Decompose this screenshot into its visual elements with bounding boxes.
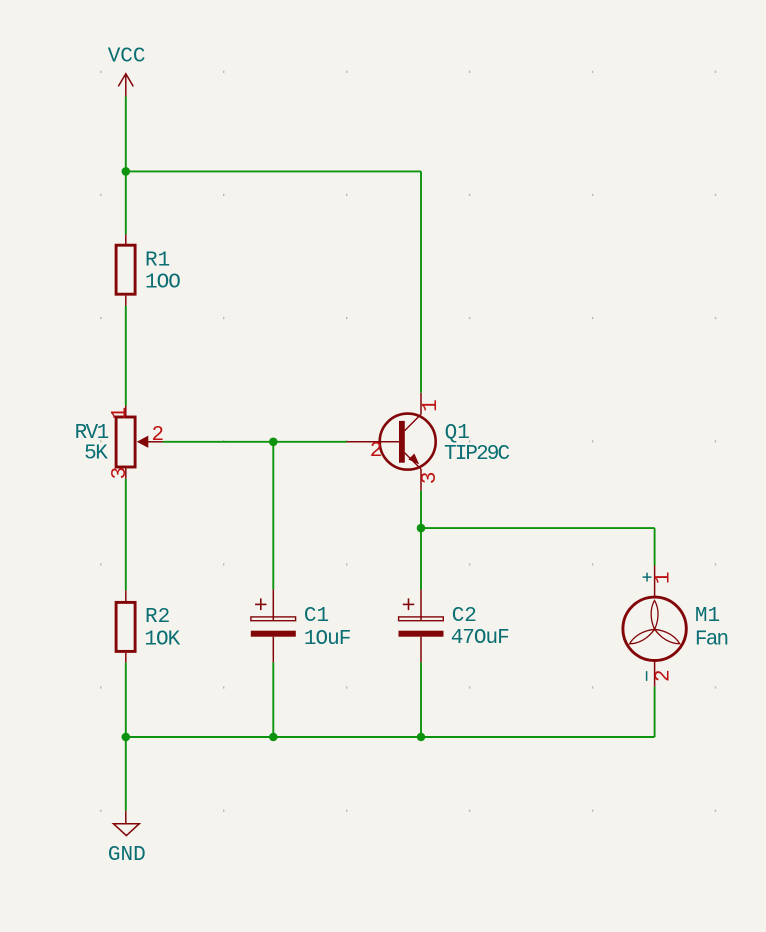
wire Q1 emitter down to mid junction	[420, 491, 422, 528]
svg-text:47OuF: 47OuF	[451, 627, 509, 650]
capacitor C1	[251, 589, 296, 662]
resistor R2	[116, 590, 135, 663]
svg-text:R1: R1	[145, 250, 170, 273]
junction at VCC rail and top wire	[122, 167, 131, 176]
svg-text:3: 3	[419, 471, 442, 484]
svg-text:C2: C2	[452, 605, 477, 628]
svg-text:R2: R2	[145, 606, 170, 629]
resistor R1	[116, 234, 135, 306]
wire R2 pin 2 to bottom wire	[125, 663, 127, 737]
junction at bottom left GND node	[122, 733, 131, 742]
svg-text:1: 1	[420, 399, 443, 412]
wire fan column down to M1 pin 1	[654, 528, 656, 565]
M1 plus mark	[643, 573, 652, 582]
svg-text:5K: 5K	[84, 442, 108, 465]
svg-text:TIP29C: TIP29C	[444, 443, 510, 466]
wire C1 column down from wiper wire	[272, 442, 274, 590]
svg-text:GND: GND	[108, 844, 146, 867]
power symbol VCC	[118, 74, 133, 97]
wire emitter junction down to C2 pin 1	[420, 528, 422, 589]
junction at C1 bottom	[269, 733, 278, 742]
svg-text:2: 2	[653, 669, 676, 682]
wire RV1 pin 3 to R2 pin 1	[125, 479, 127, 590]
wire C1 pin 2 to bottom wire	[272, 662, 274, 737]
wire M1 pin 2 down to bottom wire	[654, 687, 656, 737]
transistor Q1	[347, 393, 436, 491]
svg-text:3: 3	[109, 467, 132, 480]
wire C2 pin 2 to bottom wire	[420, 662, 422, 737]
svg-text:2: 2	[152, 424, 165, 447]
wire R1 pin 2 to RV1 pin 1	[125, 306, 127, 406]
svg-text:M1: M1	[695, 605, 720, 628]
junction at wiper wire and C1 column	[269, 438, 278, 447]
svg-text:1OK: 1OK	[144, 628, 180, 651]
svg-text:2: 2	[370, 440, 383, 463]
wire top horizontal to collector column	[126, 170, 421, 172]
wire Q1 collector up to top wire	[420, 171, 422, 392]
wire bottom horizontal	[126, 736, 655, 738]
wire VCC to top junction	[125, 96, 127, 171]
wire RV1 wiper to Q1 base	[163, 441, 347, 443]
wire bottom junction down to GND symbol	[125, 737, 127, 811]
svg-text:1OuF: 1OuF	[304, 628, 351, 651]
svg-text:1: 1	[653, 571, 676, 584]
wire mid horizontal to fan column	[421, 527, 655, 529]
capacitor C2	[399, 589, 444, 662]
junction at C2 bottom	[417, 733, 426, 742]
svg-text:Q1: Q1	[445, 422, 470, 445]
M1 minus mark	[646, 671, 648, 681]
svg-text:VCC: VCC	[108, 45, 146, 68]
svg-text:C1: C1	[304, 605, 329, 628]
svg-text:1OO: 1OO	[145, 272, 180, 295]
junction at emitter node	[417, 524, 426, 533]
potentiometer RV1	[116, 406, 163, 479]
svg-text:Fan: Fan	[695, 628, 728, 651]
wire top junction down to R1 pin 1	[125, 171, 127, 234]
motor fan M1	[623, 566, 686, 687]
svg-text:1: 1	[109, 407, 132, 420]
ground symbol GND	[113, 811, 139, 836]
